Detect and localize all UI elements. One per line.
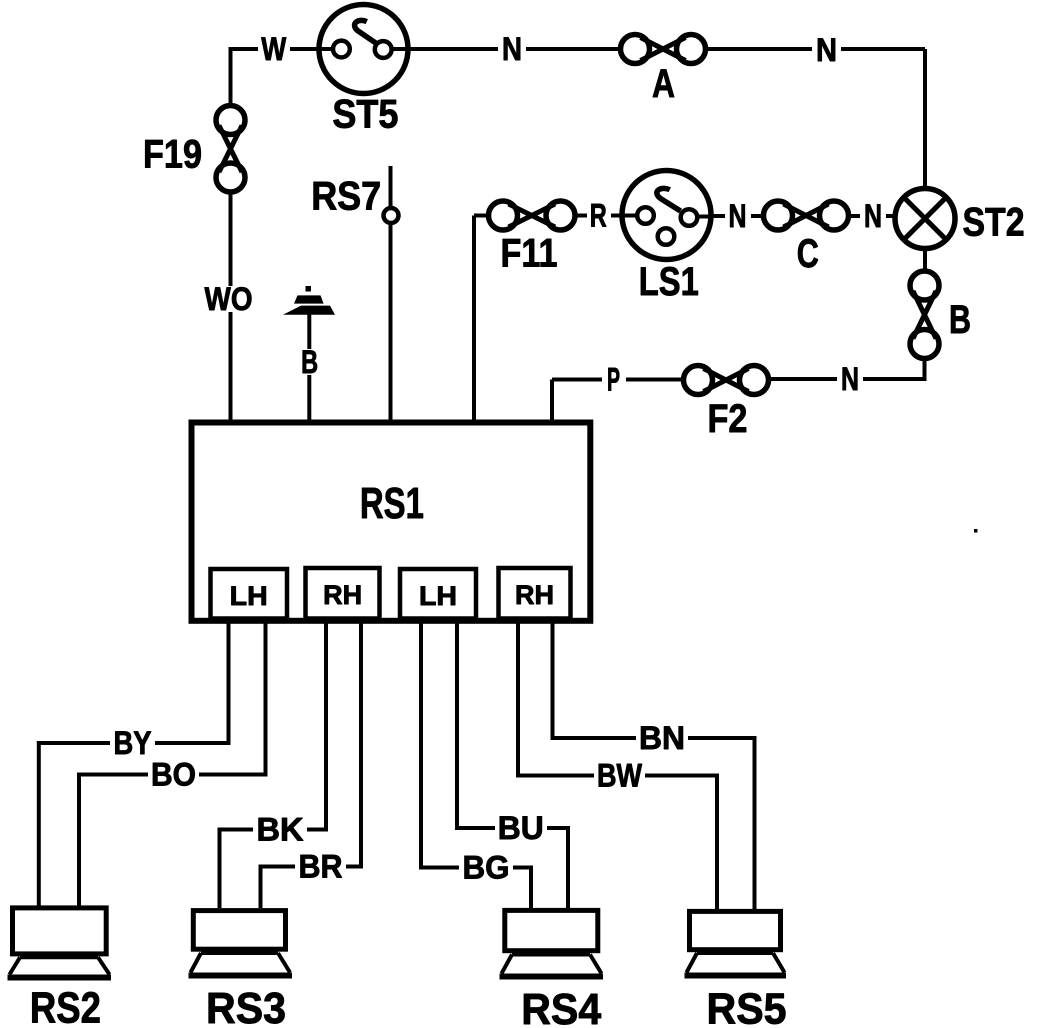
label F19 bbox=[143, 133, 202, 177]
svg-text:WO: WO bbox=[205, 281, 253, 317]
wire label R bbox=[587, 198, 611, 234]
fuse F19 bbox=[216, 106, 245, 193]
wire label BU bbox=[495, 810, 547, 846]
wire top-left corner W to ST5 bbox=[229, 47, 318, 106]
svg-text:A: A bbox=[652, 62, 675, 106]
wire label BR bbox=[295, 849, 346, 885]
wire fuse A to top-right corner bbox=[706, 49, 926, 189]
label ST5 bbox=[332, 93, 398, 137]
label RS4 bbox=[521, 985, 601, 1028]
svg-text:RH: RH bbox=[515, 580, 554, 610]
svg-text:N: N bbox=[502, 31, 522, 67]
fuse B bbox=[910, 271, 939, 359]
svg-text:LH: LH bbox=[419, 581, 457, 611]
label F2 bbox=[708, 397, 748, 441]
label LS1 bbox=[639, 260, 699, 304]
svg-text:RS5: RS5 bbox=[707, 985, 787, 1028]
svg-text:LS1: LS1 bbox=[639, 260, 699, 304]
wire BO bbox=[79, 622, 266, 906]
svg-text:LH: LH bbox=[230, 581, 268, 611]
wire fuse F2 to P corner into RS1 bbox=[552, 380, 684, 423]
svg-text:N: N bbox=[841, 361, 859, 397]
svg-text:N: N bbox=[864, 198, 882, 234]
svg-text:RS1: RS1 bbox=[360, 479, 424, 528]
speaker RS5 bbox=[685, 911, 787, 975]
svg-text:F2: F2 bbox=[708, 397, 748, 441]
wire BG bbox=[421, 622, 531, 908]
svg-text:RS2: RS2 bbox=[30, 984, 101, 1028]
switch ST5 bbox=[319, 5, 408, 94]
connector LH 1 bbox=[211, 569, 288, 619]
scan speck right bbox=[974, 529, 978, 533]
label B bbox=[949, 298, 971, 342]
speaker RS3 bbox=[189, 911, 293, 976]
wire F11 corner down into RS1 bbox=[474, 216, 489, 423]
fuse F2 bbox=[684, 366, 769, 395]
wire fuse B down and left to fuse F2 bbox=[769, 359, 925, 380]
wire label BY bbox=[110, 725, 155, 761]
wire label BK bbox=[253, 812, 307, 848]
svg-text:N: N bbox=[729, 198, 747, 234]
label F11 bbox=[501, 232, 558, 276]
ground bbox=[283, 286, 335, 315]
wire label BW bbox=[594, 758, 645, 794]
wire label N bbox=[498, 31, 526, 67]
svg-text:BK: BK bbox=[257, 812, 304, 848]
wire BN bbox=[553, 622, 755, 909]
svg-text:B: B bbox=[949, 298, 971, 342]
connector RH 2 bbox=[499, 568, 571, 619]
svg-text:BU: BU bbox=[498, 810, 544, 846]
svg-text:RS3: RS3 bbox=[206, 984, 286, 1028]
terminal RS7 bbox=[384, 166, 399, 422]
label RS3 bbox=[206, 984, 286, 1028]
wire label N bbox=[812, 32, 841, 68]
speaker RS4 bbox=[500, 910, 604, 976]
wire label BO bbox=[148, 757, 199, 793]
connector LH 2 bbox=[400, 569, 476, 619]
label RS2 bbox=[30, 984, 101, 1028]
wire BW bbox=[518, 622, 717, 909]
svg-text:R: R bbox=[590, 198, 607, 234]
svg-text:B: B bbox=[301, 344, 318, 380]
svg-text:BN: BN bbox=[639, 720, 685, 756]
wire label N bbox=[860, 198, 886, 234]
wire label BN bbox=[636, 720, 688, 756]
speaker RS2 bbox=[8, 908, 112, 978]
wire label N bbox=[837, 361, 863, 397]
wire F19 down into RS1 bbox=[229, 192, 233, 422]
box RS1 bbox=[192, 423, 591, 621]
wire BK bbox=[220, 622, 327, 908]
wire ST2 to fuse B bbox=[923, 249, 927, 272]
wire ground stem B to RS1 bbox=[307, 314, 311, 422]
svg-text:ST5: ST5 bbox=[332, 93, 398, 137]
fuse C bbox=[764, 201, 849, 230]
wire label B bbox=[298, 344, 321, 380]
svg-text:RS7: RS7 bbox=[311, 175, 381, 219]
svg-text:ST2: ST2 bbox=[963, 201, 1025, 245]
svg-text:W: W bbox=[261, 31, 287, 67]
wire label N bbox=[725, 198, 751, 234]
svg-text:BR: BR bbox=[299, 849, 343, 885]
wire LS1 to fuse C bbox=[711, 214, 764, 218]
svg-text:BY: BY bbox=[114, 725, 152, 761]
wire BU bbox=[457, 622, 568, 908]
wire BY bbox=[39, 622, 229, 906]
label RS1 bbox=[360, 479, 424, 528]
svg-text:F11: F11 bbox=[501, 232, 558, 276]
label RS5 bbox=[707, 985, 787, 1028]
svg-text:RH: RH bbox=[323, 580, 362, 610]
wire ST5 to fuse A bbox=[408, 47, 621, 51]
svg-text:C: C bbox=[797, 232, 819, 276]
label A bbox=[652, 62, 675, 106]
wire label BG bbox=[459, 850, 513, 886]
fuse A bbox=[621, 35, 706, 64]
svg-text:F19: F19 bbox=[143, 133, 202, 177]
svg-text:BO: BO bbox=[151, 757, 196, 793]
connector RH 1 bbox=[306, 568, 380, 619]
svg-text:BG: BG bbox=[463, 850, 510, 886]
svg-text:N: N bbox=[816, 32, 837, 68]
wire BR bbox=[261, 622, 362, 908]
svg-text:P: P bbox=[607, 362, 620, 398]
label RS7 bbox=[311, 175, 381, 219]
switch LS1 bbox=[622, 171, 711, 260]
wire label W bbox=[258, 31, 290, 67]
wire label P bbox=[602, 362, 626, 398]
wire F11 to LS1 bbox=[575, 214, 623, 218]
fuse F11 bbox=[489, 201, 576, 230]
wire fuse C to ST2 bbox=[849, 214, 897, 218]
svg-text:BW: BW bbox=[597, 758, 643, 794]
svg-text:RS4: RS4 bbox=[521, 985, 601, 1028]
lamp ST2 bbox=[885, 189, 955, 249]
label ST2 bbox=[963, 201, 1025, 245]
wire label WO bbox=[202, 281, 256, 317]
label C bbox=[797, 232, 819, 276]
